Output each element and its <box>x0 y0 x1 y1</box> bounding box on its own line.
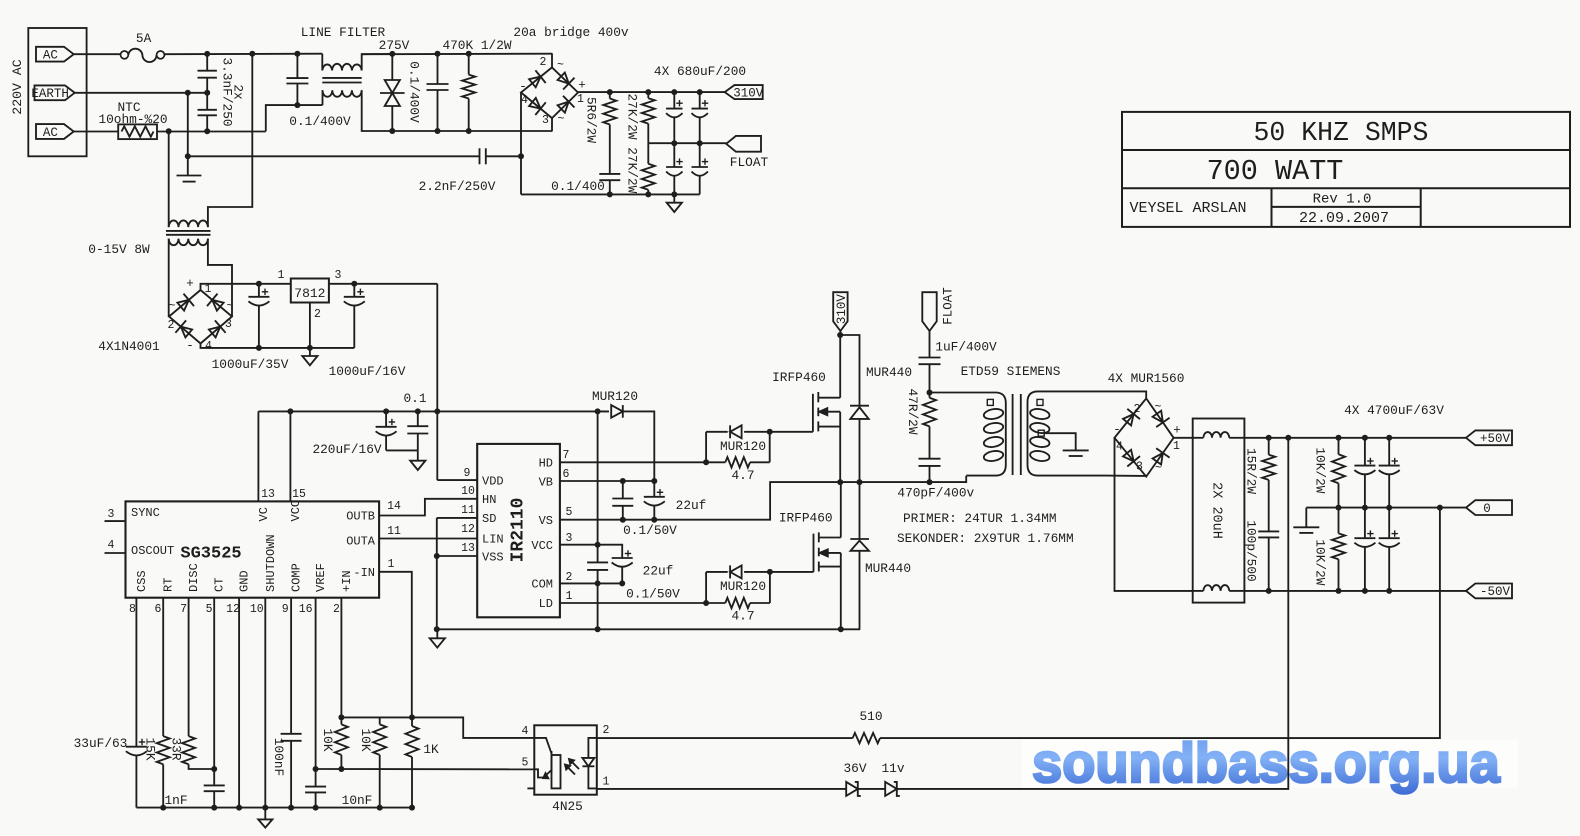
svg-text:OSCOUT: OSCOUT <box>131 544 174 558</box>
svg-text:10: 10 <box>461 485 475 498</box>
capacitor 220uF/16V <box>385 411 387 426</box>
svg-text:220uF/16V: 220uF/16V <box>312 442 381 457</box>
svg-text:13: 13 <box>261 488 275 501</box>
svg-text:10ohm-%20: 10ohm-%20 <box>98 112 167 127</box>
svg-text:4: 4 <box>1116 441 1123 454</box>
wire gate low <box>770 571 814 573</box>
bleeder 10K/2W lower <box>1338 508 1340 534</box>
wire VC pin13 of SG3525 <box>257 411 259 501</box>
svg-text:20a bridge 400v: 20a bridge 400v <box>513 25 629 40</box>
capacitor 4700uF/63V #1 <box>1364 438 1366 466</box>
capacitor 100nF comp <box>281 733 302 735</box>
tag 310V vertical <box>833 292 847 331</box>
svg-text:SYNC: SYNC <box>131 506 160 520</box>
svg-text:FLOAT: FLOAT <box>730 155 769 170</box>
svg-text:16: 16 <box>299 603 313 616</box>
svg-text:1nF: 1nF <box>164 793 187 808</box>
svg-text:LINE FILTER: LINE FILTER <box>301 25 386 40</box>
svg-text:VB: VB <box>539 476 553 490</box>
svg-text:MUR120: MUR120 <box>720 579 766 594</box>
svg-text:1: 1 <box>388 558 395 571</box>
wire top AC into bridge <box>551 54 553 68</box>
capacitor 3.3nF/250 (lower of 2x) <box>206 93 208 110</box>
pin 9 VDD <box>437 479 477 481</box>
wire DISC pin7 down <box>188 598 190 736</box>
pin 13 VSS <box>437 555 477 557</box>
svg-text:4.7: 4.7 <box>731 609 754 624</box>
wire CSS pin8 down <box>135 598 137 747</box>
aux bridge rectifier 4X1N4001 <box>169 290 232 344</box>
svg-text:15K: 15K <box>142 737 157 760</box>
svg-text:1K: 1K <box>423 742 439 757</box>
capacitor 0.1/50V vcc <box>597 411 599 562</box>
wire 7812 pin3 +12V <box>329 283 437 285</box>
svg-text:2X 20uH: 2X 20uH <box>1209 482 1224 539</box>
svg-text:0.1/400: 0.1/400 <box>551 179 605 194</box>
IC U1 SG3525 <box>126 501 380 597</box>
svg-text:SD: SD <box>482 512 496 526</box>
svg-text:1: 1 <box>278 269 285 282</box>
svg-text:+: + <box>186 277 194 291</box>
earth ground symbol <box>187 93 189 176</box>
svg-text:275V: 275V <box>379 38 410 53</box>
gate resistor 4.7 low side <box>706 602 725 604</box>
svg-text:VREF: VREF <box>314 563 328 592</box>
svg-text:4: 4 <box>108 539 115 552</box>
capacitor 4700uF/63V #4 <box>1388 508 1390 539</box>
line filter upper winding <box>321 54 323 71</box>
svg-text:510: 510 <box>859 709 882 724</box>
svg-text:36V: 36V <box>843 761 866 776</box>
wire secondary left to aux bridge <box>168 239 170 317</box>
svg-text:27K/2W 27K/2W: 27K/2W 27K/2W <box>624 93 639 193</box>
svg-text:4.7: 4.7 <box>731 468 754 483</box>
freewheel diode MUR440 low <box>850 538 869 540</box>
svg-text:~: ~ <box>1155 462 1162 475</box>
wire -IN feedback down <box>379 572 412 718</box>
wire gate high <box>770 431 813 433</box>
snubber resistor 15R/2W <box>1268 438 1270 455</box>
wire primary right up to AC1 rail <box>208 54 252 227</box>
wire opto cathode to zeners <box>597 788 847 790</box>
wire 7812 pin2 to gnd rail <box>309 303 311 348</box>
svg-text:AC: AC <box>43 49 58 63</box>
svg-text:+: + <box>578 79 586 93</box>
aux transformer secondary winding <box>169 239 208 246</box>
capacitor 1nF timing <box>204 784 225 786</box>
4N25 base stub <box>527 787 534 789</box>
ground symbol caps <box>417 450 419 460</box>
DC- bottom rail <box>521 193 700 195</box>
output bridge 4X MUR1560 <box>1115 398 1174 476</box>
svg-text:11: 11 <box>387 525 401 538</box>
pin 3 VCC <box>560 545 622 558</box>
bleeder resistor 27K/2W lower <box>647 143 649 164</box>
wire +IN pin2 down <box>340 598 342 718</box>
svg-text:22uf: 22uf <box>643 564 674 579</box>
title block <box>1122 112 1570 227</box>
+50V rail <box>1244 437 1466 439</box>
tag 0 <box>1466 500 1512 515</box>
wire AC2 to NTC <box>74 131 119 133</box>
svg-text:~: ~ <box>557 59 564 72</box>
svg-text:9: 9 <box>282 603 289 616</box>
capacitor 22uf bootstrap <box>653 481 655 497</box>
regulator 7812 <box>291 279 329 303</box>
svg-text:310V: 310V <box>733 86 764 100</box>
svg-text:VC: VC <box>257 507 271 521</box>
svg-text:470K 1/2W: 470K 1/2W <box>442 38 511 53</box>
bleeder 10K/2W upper <box>1338 438 1340 455</box>
svg-text:MUR440: MUR440 <box>865 561 911 576</box>
svg-text:6: 6 <box>155 603 162 616</box>
svg-text:7: 7 <box>180 603 187 616</box>
pin 11 SD <box>437 517 477 519</box>
4N25 base box <box>552 755 561 788</box>
svg-text:2: 2 <box>333 603 340 616</box>
ETD59 secondary dot squares <box>1037 399 1043 405</box>
svg-text:11: 11 <box>461 504 475 517</box>
svg-text:~: ~ <box>227 300 234 313</box>
capacitor 0.1/400V filter input <box>296 54 298 78</box>
svg-text:VSS: VSS <box>482 551 504 565</box>
svg-text:IRFP460: IRFP460 <box>772 370 826 385</box>
svg-text:HD: HD <box>539 457 553 471</box>
svg-text:1uF/400V: 1uF/400V <box>935 340 997 355</box>
svg-text:1: 1 <box>205 283 212 296</box>
watermark band <box>1022 740 1518 788</box>
svg-text:6: 6 <box>563 468 570 481</box>
ETD59 secondary winding <box>1028 391 1106 475</box>
svg-text:CT: CT <box>213 578 227 592</box>
wire COMP pin9 down <box>290 598 292 734</box>
ground symbol DC- rail <box>673 194 675 202</box>
svg-text:OUTA: OUTA <box>346 535 376 549</box>
svg-text:3: 3 <box>566 532 573 545</box>
svg-text:5: 5 <box>522 757 529 770</box>
svg-text:VDD: VDD <box>482 475 504 489</box>
svg-text:COMP: COMP <box>290 563 304 592</box>
capacitor 680uF/200 #1 top <box>673 92 675 109</box>
svg-text:5A: 5A <box>136 31 152 46</box>
thermistor NTC 10ohm-%20 <box>118 124 157 139</box>
filter choke box 2X 20uH <box>1193 419 1245 603</box>
svg-text:4X 4700uF/63V: 4X 4700uF/63V <box>1344 403 1444 418</box>
svg-text:15R/2W: 15R/2W <box>1243 448 1258 494</box>
svg-text:IR2110: IR2110 <box>509 498 529 563</box>
wire +12V down to VDD rail <box>436 284 438 480</box>
pin 2 COM <box>560 582 622 584</box>
svg-text:8: 8 <box>129 603 136 616</box>
resistor 10K divider upper <box>340 717 342 724</box>
choke lower winding <box>1193 590 1204 592</box>
4N25 LED <box>588 738 596 758</box>
svg-text:MUR440: MUR440 <box>866 365 912 380</box>
wire top rail filter to bridge <box>362 53 553 56</box>
wire SHUTDOWN pin10 down <box>264 598 266 808</box>
svg-text:10K: 10K <box>358 728 373 751</box>
wire GND pin12 down <box>238 598 240 808</box>
capacitor 0.1/400V (varistor side) <box>437 54 439 84</box>
svg-text:0.1/50V: 0.1/50V <box>623 523 677 538</box>
svg-text:4: 4 <box>205 340 212 353</box>
svg-text:MUR120: MUR120 <box>592 389 638 404</box>
wire AC2 step up to filter <box>266 105 323 131</box>
capacitor 680uF/200 #1 bottom <box>673 143 675 167</box>
wire secondary right to aux bridge <box>208 239 232 317</box>
svg-text:2: 2 <box>168 319 175 332</box>
wire NTC output AC2 line <box>157 131 266 133</box>
wire EARTH <box>75 92 208 94</box>
svg-text:3: 3 <box>335 269 342 282</box>
resistor 15K <box>157 736 170 764</box>
capacitor 1000uF/16V <box>353 284 355 297</box>
svg-text:0.1/50V: 0.1/50V <box>626 587 680 602</box>
zener 11v <box>885 782 897 796</box>
svg-text:33R: 33R <box>168 737 183 760</box>
0V line <box>1306 507 1466 509</box>
svg-text:5: 5 <box>206 603 213 616</box>
svg-text:~: ~ <box>1155 401 1162 414</box>
wire between zeners <box>858 788 886 790</box>
svg-text:22uf: 22uf <box>676 498 707 513</box>
svg-text:5: 5 <box>566 506 573 519</box>
wire OUTA to LIN <box>379 538 477 540</box>
capacitor 680uF/200 #2 bottom <box>699 143 701 167</box>
svg-text:DISC: DISC <box>187 563 201 592</box>
capacitor 10nF vref <box>305 786 326 788</box>
zener 36V <box>846 782 858 796</box>
aux transformer primary winding <box>169 220 208 227</box>
svg-text:2: 2 <box>603 724 610 737</box>
wire +310 rail <box>578 91 725 93</box>
svg-text:0.1: 0.1 <box>403 391 426 406</box>
wire CT pin5 down <box>213 598 215 786</box>
optocoupler U3 4N25 <box>534 725 597 794</box>
svg-text:~: ~ <box>169 300 176 313</box>
tag FLOAT vertical <box>922 292 936 331</box>
svg-text:2: 2 <box>1134 403 1141 416</box>
svg-text:100nF: 100nF <box>271 738 286 776</box>
svg-text:MUR120: MUR120 <box>720 439 766 454</box>
terminal EARTH <box>35 85 75 100</box>
tag 310V <box>725 85 763 99</box>
svg-text:SHUTDOWN: SHUTDOWN <box>264 534 278 592</box>
bleeder resistor 27K/2W upper <box>647 92 649 98</box>
svg-text:1: 1 <box>577 93 584 106</box>
-50V rail <box>1244 590 1466 592</box>
svg-text:13: 13 <box>461 542 475 555</box>
wire lower winding to AC2 bus y=131 <box>362 90 553 131</box>
svg-text:7812: 7812 <box>294 286 325 301</box>
svg-text:SG3525: SG3525 <box>180 545 241 564</box>
fuse F1 5A <box>121 51 129 59</box>
svg-text:-: - <box>186 339 194 353</box>
svg-text:15: 15 <box>292 488 306 501</box>
svg-text:Rev 1.0: Rev 1.0 <box>1313 192 1372 208</box>
svg-text:310V: 310V <box>835 294 849 325</box>
svg-text:700 WATT: 700 WATT <box>1207 155 1344 188</box>
wire zeners to +50V rail <box>897 438 1289 789</box>
wire primary left to AC2 node <box>168 131 170 227</box>
gate diode MUR120 high side <box>706 431 728 433</box>
svg-text:OUTB: OUTB <box>346 510 375 524</box>
wire opto anode to 510 <box>597 737 853 739</box>
pin 7 HD <box>560 461 706 463</box>
svg-text:3: 3 <box>1136 461 1143 474</box>
ETD59 primary dot square <box>987 399 993 405</box>
svg-text:1: 1 <box>566 590 573 603</box>
svg-text:33uF/63: 33uF/63 <box>74 736 128 751</box>
gate network nodes high <box>705 432 707 463</box>
FLOAT mid line <box>648 142 726 144</box>
IR2110 ground rail <box>437 628 860 630</box>
line filter lower winding <box>323 90 362 97</box>
svg-text:1000uF/35V: 1000uF/35V <box>212 357 289 372</box>
svg-text:VCC: VCC <box>289 500 303 522</box>
svg-text:+IN: +IN <box>340 570 354 592</box>
svg-text:2: 2 <box>314 308 321 321</box>
svg-text:-IN: -IN <box>353 566 375 580</box>
capacitor 0.1 decoupling <box>417 411 419 426</box>
ETD59 center tap to ground <box>1044 433 1076 450</box>
tag FLOAT (right) <box>726 136 761 152</box>
4N25 phototransistor <box>534 738 551 754</box>
svg-text:4X1N4001: 4X1N4001 <box>98 339 160 354</box>
resistor 33R <box>182 736 195 764</box>
varistor 275V <box>391 54 393 80</box>
svg-text:LIN: LIN <box>482 533 504 547</box>
wire earth bus y=156 <box>188 155 480 157</box>
svg-text:RT: RT <box>162 578 176 592</box>
svg-text:3: 3 <box>542 114 549 127</box>
aux transformer core <box>166 230 211 232</box>
svg-text:14: 14 <box>387 500 401 513</box>
svg-text:10: 10 <box>250 603 264 616</box>
svg-text:12: 12 <box>461 523 475 536</box>
svg-text:4: 4 <box>521 94 528 107</box>
svg-text:1: 1 <box>1173 440 1180 453</box>
svg-text:ETD59 SIEMENS: ETD59 SIEMENS <box>961 364 1061 379</box>
ground symbol shutdown rail <box>264 808 266 820</box>
gate resistor 4.7 high side <box>706 461 725 463</box>
snubber capacitor 100p/500 <box>1258 530 1279 532</box>
wire VREF pin16 down <box>315 598 317 787</box>
wire VCC pin15 of SG3525 <box>289 411 291 501</box>
svg-text:PRIMER: 24TUR 1.34MM: PRIMER: 24TUR 1.34MM <box>903 511 1057 526</box>
snubber capacitor 0.1/400 <box>599 173 620 175</box>
terminal AC (bottom) <box>36 124 74 139</box>
capacitor 4700uF/63V #2 <box>1388 438 1390 466</box>
svg-text:4N25: 4N25 <box>552 799 583 814</box>
AC input connector box 220V AC <box>28 28 86 156</box>
svg-text:FLOAT: FLOAT <box>942 287 956 325</box>
svg-text:10nF: 10nF <box>342 793 373 808</box>
svg-text:10K/2W: 10K/2W <box>1312 539 1327 585</box>
tag +50V <box>1466 430 1512 445</box>
ground symbol IR2110 <box>436 629 438 638</box>
wire SD/VSS to ground <box>436 518 438 629</box>
svg-text:4: 4 <box>522 725 529 738</box>
wire AC1 to fuse <box>74 53 121 55</box>
svg-text:4X 680uF/200: 4X 680uF/200 <box>654 64 746 79</box>
wire bottom AC into bridge <box>551 118 553 131</box>
wire node to opto collector <box>412 717 534 738</box>
wire cap gnd <box>386 449 418 451</box>
choke upper winding <box>1193 437 1204 439</box>
svg-text:2: 2 <box>566 571 573 584</box>
svg-text:VS: VS <box>539 514 553 528</box>
svg-text:1: 1 <box>603 776 610 789</box>
wire 310V to drain <box>839 331 841 335</box>
capacitor 470pF/400v <box>919 458 941 460</box>
svg-text:VCC: VCC <box>531 539 553 553</box>
freewheel diode MUR440 high <box>840 335 859 406</box>
ETD59 primary winding <box>930 393 1006 476</box>
svg-text:-: - <box>1113 423 1121 437</box>
capacitor 1uF/400V <box>929 331 931 358</box>
+12V rail <box>258 410 609 412</box>
resistor 510 feedback <box>853 733 880 743</box>
svg-text:EARTH: EARTH <box>31 87 69 101</box>
svg-text:50 KHZ SMPS: 50 KHZ SMPS <box>1254 118 1429 148</box>
capacitor 33uF/63 soft start <box>126 746 147 748</box>
pin 1 LD <box>560 602 706 604</box>
svg-text:3: 3 <box>225 318 232 331</box>
capacitor 4700uF/63V #3 <box>1364 508 1366 539</box>
capacitor 2.2nF/250V <box>479 148 481 164</box>
svg-text:3.3nF/250: 3.3nF/250 <box>219 57 234 126</box>
svg-text:COM: COM <box>531 578 553 592</box>
capacitor 680uF/200 #2 top <box>699 92 701 109</box>
svg-text:0.1/400V: 0.1/400V <box>289 114 351 129</box>
svg-text:5R6/2W: 5R6/2W <box>583 97 598 143</box>
pin 3 SYNC stub <box>105 520 126 522</box>
svg-text:0: 0 <box>1483 502 1491 516</box>
aux ground rail <box>201 344 355 348</box>
IC U2 IR2110 <box>477 444 560 617</box>
wire secondary top to bridge <box>1105 391 1146 398</box>
svg-text:2.2nF/250V: 2.2nF/250V <box>419 179 496 194</box>
terminal AC (top) <box>36 47 74 62</box>
svg-text:220V AC: 220V AC <box>10 59 25 114</box>
SG3525 ground rail <box>136 807 412 809</box>
bridge rectifier 20A 400V <box>521 67 578 118</box>
4N25 light arrows <box>570 760 580 770</box>
svg-text:47R/2W: 47R/2W <box>905 388 920 434</box>
svg-text:+: + <box>1173 424 1181 438</box>
svg-text:12: 12 <box>226 603 240 616</box>
wire OUTB to HN <box>379 499 477 516</box>
svg-text:IRFP460: IRFP460 <box>779 511 833 526</box>
ground symbol aux <box>309 348 311 356</box>
svg-text:-50V: -50V <box>1480 585 1511 599</box>
svg-text:4X MUR1560: 4X MUR1560 <box>1108 371 1185 386</box>
svg-text:100p/500: 100p/500 <box>1243 520 1258 581</box>
svg-text:1000uF/16V: 1000uF/16V <box>329 364 406 379</box>
wire bridge + to filter <box>1174 437 1193 439</box>
VREF feedback line to opto emitter <box>316 768 535 770</box>
wire fuse to line filter (top AC rail y=54) <box>164 53 165 56</box>
svg-text:+50V: +50V <box>1480 432 1511 446</box>
svg-text:AC: AC <box>43 126 58 140</box>
gate diode MUR120 low side <box>706 571 728 573</box>
wire bridge - to -50 rail <box>1115 438 1193 591</box>
svg-text:11v: 11v <box>881 761 904 776</box>
ETD59 core <box>1012 394 1014 475</box>
svg-text:LD: LD <box>539 597 553 611</box>
capacitor 0.1/50V bootstrap <box>622 481 624 499</box>
